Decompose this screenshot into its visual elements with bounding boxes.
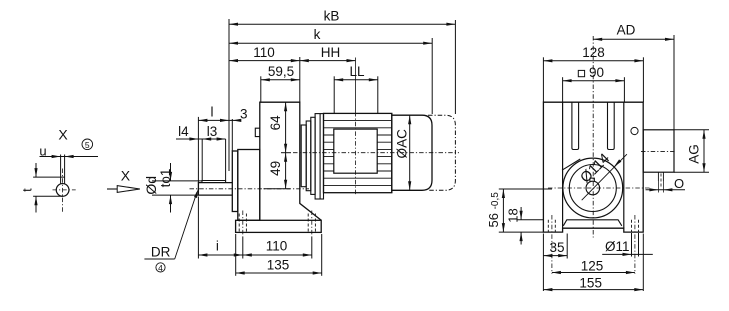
view direction arrow X	[107, 188, 117, 190]
svg-text:X: X	[121, 168, 131, 184]
svg-text:HH: HH	[321, 45, 341, 60]
bore keyway	[590, 178, 595, 182]
hub cover plate	[232, 151, 238, 212]
svg-text:t: t	[20, 188, 35, 192]
motor body with cooling fins	[324, 113, 392, 192]
dimension O	[646, 189, 686, 191]
svg-text:49: 49	[268, 161, 283, 176]
svg-text:155: 155	[579, 276, 602, 291]
keyway slot walls	[60, 155, 62, 185]
bearing housing block	[238, 150, 260, 221]
svg-text:90: 90	[589, 65, 604, 80]
svg-text:kB: kB	[324, 9, 340, 24]
dimension k	[229, 42, 432, 44]
oil plug on gear case	[255, 128, 259, 136]
output shaft centerline	[190, 188, 310, 190]
svg-text:AG: AG	[686, 144, 701, 164]
chamfer on boss	[562, 159, 580, 170]
svg-text:4: 4	[158, 263, 163, 273]
svg-text:k: k	[314, 27, 321, 42]
dimension 49 (motor axis to output axis)	[284, 153, 287, 162]
dimension 155	[543, 289, 643, 291]
front view housing outline with feet	[543, 102, 643, 232]
output bore circle	[586, 181, 600, 195]
circled note 5	[82, 139, 93, 150]
dimension i	[198, 254, 242, 256]
gear case body	[260, 102, 321, 220]
svg-text:l4: l4	[178, 124, 189, 139]
front face profile edges	[562, 102, 564, 228]
dimension O feature	[657, 172, 659, 181]
input cover centerline	[641, 150, 677, 152]
dimension l4	[176, 138, 226, 140]
dimension u	[40, 156, 99, 158]
motor adapter ring 2	[306, 121, 311, 191]
svg-text:O: O	[674, 176, 684, 191]
extension line left (shaft hub face)	[228, 19, 230, 171]
dimension l3	[217, 137, 226, 140]
dimension 128	[543, 60, 643, 62]
svg-text:3: 3	[240, 106, 248, 121]
svg-text:128: 128	[582, 45, 605, 60]
dimension 135	[236, 272, 322, 274]
svg-text:l3: l3	[207, 124, 218, 139]
front foot bolt hole right	[631, 220, 633, 232]
front view centerlines	[548, 187, 651, 189]
motor adapter ring 3	[311, 117, 315, 194]
bearing bore circle	[569, 165, 616, 212]
dimension 56 -0,5	[502, 189, 504, 232]
dimension 64 (case top to motor axis)	[285, 102, 287, 189]
svg-text:110: 110	[266, 238, 288, 253]
dimension Od / to1 extension lines	[152, 180, 202, 182]
circled note 4	[156, 263, 165, 272]
dimension l	[198, 119, 229, 121]
hole wall extension lines	[631, 233, 633, 257]
detail centerlines	[53, 189, 76, 191]
shaft bottom extension	[33, 195, 63, 197]
svg-text:DR: DR	[151, 244, 171, 259]
left foot bolt hole	[238, 214, 240, 233]
svg-text:125: 125	[581, 259, 604, 274]
front foot bolt hole left	[547, 220, 549, 232]
dimension AG	[674, 129, 709, 131]
output shaft	[198, 183, 232, 196]
motor flange ring	[315, 114, 323, 199]
svg-text:l: l	[211, 105, 214, 120]
shaft cross-section circle	[56, 184, 69, 197]
fan cover	[392, 113, 432, 192]
dimension 110 (lower)	[243, 254, 312, 256]
cooling slot right	[608, 102, 615, 149]
dimension kB	[229, 23, 455, 25]
right foot bolt hole	[307, 214, 309, 233]
cooling slot left	[572, 102, 579, 149]
input cover box	[643, 130, 674, 172]
motor terminal box	[334, 129, 377, 173]
dimension O114 leader	[582, 154, 627, 200]
svg-text:i: i	[216, 238, 219, 253]
svg-text:u: u	[39, 144, 46, 159]
dimension O11 leader	[602, 253, 653, 255]
svg-text:to1: to1	[158, 169, 173, 188]
svg-text:64: 64	[268, 115, 283, 131]
foot base plate	[236, 220, 322, 232]
dimension 110 (upper)	[229, 60, 300, 62]
brake motor extension outline (dash-dot)	[428, 115, 455, 190]
output boss outer circle	[563, 158, 623, 218]
svg-text:59,5: 59,5	[268, 64, 294, 79]
svg-text:135: 135	[267, 258, 290, 273]
svg-text:LL: LL	[349, 64, 365, 79]
dimension 125	[552, 272, 635, 274]
dimension AD	[593, 38, 674, 40]
terminal box centerline / HH extension	[355, 58, 357, 113]
dimension 35	[543, 255, 567, 257]
svg-text:ØAC: ØAC	[395, 129, 410, 159]
dimension HH	[300, 60, 356, 62]
svg-text:X: X	[58, 127, 68, 143]
dimension 3	[229, 119, 241, 121]
svg-text:5: 5	[85, 140, 90, 150]
svg-text:Ød: Ød	[143, 176, 159, 195]
dimension 59,5	[261, 79, 300, 81]
dimension 18	[520, 207, 522, 220]
svg-text:110: 110	[253, 45, 275, 60]
motor adapter ring 1	[301, 125, 306, 187]
svg-text:AD: AD	[617, 23, 636, 38]
flange bolt hole	[631, 127, 638, 134]
dimension LL	[334, 79, 378, 81]
key on output shaft	[202, 181, 226, 183]
svg-text:Ø11: Ø11	[605, 239, 630, 254]
key top line / t extension	[33, 176, 65, 178]
dimension OAC (motor diameter)	[409, 115, 411, 190]
motor centerline	[293, 152, 459, 154]
dimension t	[35, 163, 37, 177]
svg-text:18: 18	[506, 208, 521, 222]
dimension square 90	[563, 80, 625, 82]
recess between feet	[563, 220, 622, 226]
